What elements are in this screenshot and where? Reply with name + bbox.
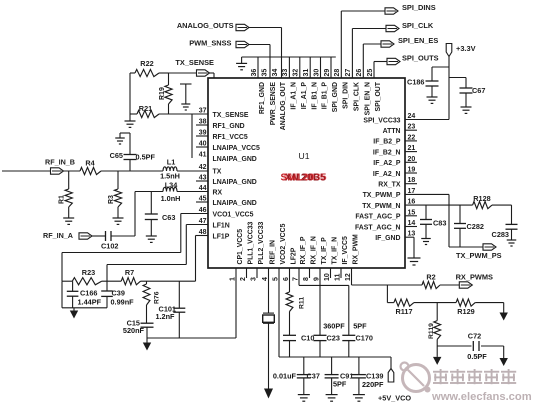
ground below left vertical: [125, 114, 136, 127]
ground below C83: [421, 239, 431, 245]
value 0.01uF of C37: [273, 372, 297, 381]
ground below C283: [507, 240, 517, 246]
pin number 42: [199, 164, 207, 171]
wire C170 to bus: [348, 341, 350, 357]
svg-text:32: 32: [293, 69, 300, 77]
connector RF_IN_A: [79, 233, 92, 239]
pin 25 label SPI_OUT: [375, 81, 382, 111]
pin number 16: [408, 199, 416, 206]
svg-text:0.01uF: 0.01uF: [273, 372, 297, 381]
pin 17 label TX_PWM_P: [363, 192, 401, 199]
net label RX_PWMS: [456, 273, 493, 282]
svg-text:R2: R2: [426, 272, 435, 281]
pin 40 LNAIPA_VCC5 stub: [196, 146, 208, 148]
net label PWM_SNSS: [189, 39, 231, 48]
pin 18 label RX_TX: [378, 182, 401, 189]
capacitor C170: [342, 335, 355, 340]
svg-text:42: 42: [199, 164, 207, 171]
wire junction vertical pin37 to pin41: [191, 114, 193, 158]
pin 43 LNAIPA_GND stub: [196, 180, 208, 182]
pin number 36: [251, 69, 258, 77]
pin number 24: [408, 113, 416, 120]
svg-text:30: 30: [313, 69, 320, 77]
wire branch to C67: [449, 78, 466, 89]
svg-text:SPI_VCC33: SPI_VCC33: [363, 117, 400, 124]
wire pin 48 net: [141, 236, 209, 282]
pin 20 label IF_A2_P: [373, 160, 401, 167]
capacitor C23: [314, 335, 327, 340]
svg-text:TX_PWM_PS: TX_PWM_PS: [456, 251, 502, 260]
pin 13 label IF_GND: [375, 235, 400, 242]
svg-text:R117: R117: [395, 307, 412, 316]
svg-text:TX_PWM_N: TX_PWM_N: [362, 203, 400, 210]
wire pin 7 IF bus: [299, 268, 349, 285]
wire ground bus above IC: [242, 56, 336, 58]
pin number 44: [199, 185, 207, 192]
svg-text:TX_SENSE: TX_SENSE: [175, 58, 214, 67]
label C39: [112, 288, 125, 297]
label R19: [159, 87, 166, 100]
pin 44 label RX: [213, 189, 223, 196]
svg-text:5PF: 5PF: [353, 321, 367, 330]
svg-text:8: 8: [303, 277, 310, 281]
value 1.5nH of L1: [160, 172, 180, 181]
svg-text:43: 43: [199, 175, 207, 182]
svg-text:RF_IN_B: RF_IN_B: [45, 158, 75, 167]
svg-text:15: 15: [408, 209, 416, 216]
pin number 20: [408, 156, 416, 163]
pin number 26: [356, 69, 363, 77]
label R117: [395, 307, 412, 316]
label C102: [101, 242, 118, 251]
label R76: [154, 291, 161, 304]
svg-text:36: 36: [251, 69, 258, 77]
label C67: [472, 86, 485, 95]
ground arrow below C15: [143, 338, 151, 351]
svg-text:+5V_VCO: +5V_VCO: [378, 394, 411, 403]
pin 19 label IF_A2_N: [373, 171, 401, 178]
svg-text:IF_A2_N: IF_A2_N: [373, 171, 401, 178]
svg-text:SPI_GND: SPI_GND: [332, 82, 339, 112]
label R22: [140, 59, 153, 68]
svg-text:39: 39: [199, 130, 207, 137]
pin 47 label LF1N: [213, 222, 230, 229]
svg-text:IF_VCC5: IF_VCC5: [342, 236, 349, 265]
svg-text:LF2P: LF2P: [291, 247, 298, 264]
capacitor C282: [454, 205, 466, 247]
wire drop to C170: [348, 285, 350, 335]
svg-text:VCO1_VCC5: VCO1_VCC5: [213, 211, 254, 218]
svg-text:RX_TX: RX_TX: [378, 182, 401, 189]
pin 43 label LNAIPA_GND: [213, 179, 257, 186]
wire RF_IN_A to C102: [92, 235, 106, 237]
svg-text:R23: R23: [82, 268, 95, 277]
pin 24 label SPI_VCC33: [363, 117, 400, 124]
pin number 40: [199, 141, 207, 148]
wire pin 17 to TX_PWM_PS: [405, 194, 483, 247]
wire pin 1 net: [235, 268, 237, 338]
pin 33 IF_A1_N stub: [288, 57, 290, 78]
pin 19 IF_A2_N stub: [405, 172, 417, 174]
net label TX_PWM_PS: [456, 251, 502, 260]
pin number 45: [199, 196, 207, 203]
svg-text:LNAIPA_VCC5: LNAIPA_VCC5: [213, 145, 261, 152]
connector RF_IN_B: [51, 168, 64, 174]
svg-text:RF_IN_A: RF_IN_A: [43, 231, 73, 240]
wire SPI_DINS to pin 28: [341, 11, 385, 78]
label R119: [428, 323, 435, 339]
svg-text:FAST_AGC_P: FAST_AGC_P: [355, 214, 401, 221]
svg-text:22: 22: [408, 134, 416, 141]
ground below R3: [113, 218, 124, 224]
pin number 15: [408, 209, 416, 216]
pin 15 FAST_AGC_P stub: [405, 215, 417, 217]
svg-text:SPI_OUT: SPI_OUT: [375, 81, 382, 111]
power +3.3V tag: [446, 44, 452, 57]
pin 8 label RX_IF_N: [311, 236, 318, 264]
pin 29 SPI_GND stub: [330, 57, 332, 78]
pin number 10: [324, 273, 331, 281]
wire C15 row to pin 1: [147, 337, 236, 339]
svg-text:IF_B1_P: IF_B1_P: [322, 82, 329, 110]
svg-text:L34: L34: [165, 181, 179, 190]
pin 23 ATTN stub: [405, 129, 417, 131]
connector TX_PWM_PS: [483, 244, 496, 250]
crystal Y1 on REF_IN: [263, 313, 275, 323]
svg-text:C65: C65: [110, 151, 123, 160]
pin number 48: [199, 229, 207, 236]
pin number 4: [262, 277, 269, 281]
wire pin 47 net: [107, 225, 208, 292]
label C15: [127, 318, 140, 327]
svg-text:C186: C186: [407, 78, 424, 87]
wire loop filter top row: [62, 280, 121, 282]
label L34: [165, 181, 179, 190]
pin 5 label VCO2_VCC5: [280, 223, 287, 264]
pin 20 IF_A2_P stub: [405, 161, 417, 163]
svg-text:www.elecfans.com: www.elecfans.com: [431, 391, 532, 403]
svg-text:0.99nF: 0.99nF: [111, 298, 135, 307]
ground below C139: [353, 395, 365, 402]
pin 31 IF_B1_N stub: [309, 57, 311, 78]
pin 45 label LNAIPA_GND: [213, 200, 257, 207]
svg-text:23: 23: [408, 124, 416, 131]
svg-text:R76: R76: [154, 291, 161, 304]
pin number 32: [293, 69, 300, 77]
pin number 29: [324, 69, 331, 77]
svg-text:C63: C63: [162, 213, 175, 222]
pin number 38: [199, 119, 207, 126]
U1 reference designator label: [299, 151, 310, 161]
net label TX_SENSE: [175, 58, 214, 67]
svg-text:PLL1_VCC33: PLL1_VCC33: [248, 221, 255, 264]
svg-text:R129: R129: [457, 307, 474, 316]
svg-text:45: 45: [199, 196, 207, 203]
wire R128 to C283: [492, 205, 512, 224]
svg-text:REF_IN: REF_IN: [270, 240, 277, 265]
resistor R11: [286, 292, 293, 312]
pin 16 label TX_PWM_N: [362, 203, 400, 210]
pin 11 IF_VCC5 stub: [340, 268, 342, 278]
wire R117 row: [387, 285, 503, 303]
wire pin 4 REF_IN net: [268, 268, 270, 391]
capacitor C101: [173, 281, 185, 338]
pin 14 label FAST_AGC_N: [355, 224, 401, 231]
svg-text:C170: C170: [356, 334, 373, 343]
svg-text:3: 3: [251, 277, 258, 281]
pin number 3: [251, 277, 258, 281]
capacitor C166: [67, 281, 79, 308]
capacitor C186: [426, 81, 439, 86]
svg-text:SPI_CLK: SPI_CLK: [402, 21, 434, 30]
pin 3 label PLL2_VCC33: [258, 221, 265, 264]
pin 35 label PWR_SENSE: [270, 82, 277, 126]
pin number 33: [282, 69, 289, 77]
wire C10 to bus: [289, 341, 291, 357]
pin 39 RF1_VCC5 stub: [196, 135, 208, 137]
pin number 43: [199, 175, 207, 182]
pin number 35: [262, 69, 269, 77]
pin 23 label ATTN: [383, 128, 401, 135]
net label SPI_DINS: [402, 3, 436, 12]
pin number 31: [303, 69, 310, 77]
svg-text:38: 38: [199, 119, 207, 126]
pin number 27: [345, 69, 352, 77]
svg-text:C83: C83: [433, 219, 446, 228]
capacitor C65: [124, 133, 137, 171]
pin 42 label TX: [213, 168, 222, 175]
ground top bus: [236, 57, 247, 70]
net label SPI_EN_ES: [398, 36, 438, 45]
ground below C67: [461, 93, 472, 113]
svg-text:ATTN: ATTN: [383, 128, 401, 135]
connector RX_PWMS: [459, 282, 472, 288]
svg-text:40: 40: [199, 141, 207, 148]
pin 30 IF_B1_P stub: [320, 57, 322, 78]
wire RF_IN_B row: [2, 170, 208, 172]
pin 40 label LNAIPA_VCC5: [213, 145, 261, 152]
wire pin 13 to ground: [405, 237, 414, 258]
wire SPI_CLK to pin 27: [352, 29, 386, 79]
svg-text:RX_IF_P: RX_IF_P: [300, 236, 307, 264]
svg-text:21: 21: [408, 145, 416, 152]
svg-text:CP1_VCC5: CP1_VCC5: [237, 229, 244, 265]
label C166: [80, 288, 97, 297]
svg-text:ANALOG_OUT: ANALOG_OUT: [280, 81, 287, 130]
svg-text:C282: C282: [467, 222, 484, 231]
resistor R3: [114, 171, 121, 218]
wire C23 to bus: [319, 341, 321, 357]
label C139: [366, 372, 383, 381]
pin number 21: [408, 145, 416, 152]
svg-text:29: 29: [324, 69, 331, 77]
pin number 8: [303, 277, 310, 281]
net label RF_IN_A: [43, 231, 73, 240]
pin number 11: [335, 273, 342, 281]
svg-text:RF1_VCC5: RF1_VCC5: [213, 134, 248, 141]
svg-text:+3.3V: +3.3V: [456, 44, 476, 53]
label R3: [108, 195, 115, 204]
connector TX_SENSE: [197, 70, 215, 78]
pin 10 label TX_IF_N: [332, 237, 339, 265]
connector SPI_EN_ES: [381, 41, 394, 47]
pin 8 RX_IF_N stub: [309, 268, 311, 278]
resistor R4: [80, 167, 101, 174]
svg-text:IF_B2_N: IF_B2_N: [373, 149, 401, 156]
svg-text:C10: C10: [301, 334, 314, 343]
label R128: [473, 194, 490, 203]
pin 22 label IF_B2_P: [373, 139, 401, 146]
capacitor C10: [283, 335, 296, 340]
wire branch to C186: [432, 67, 449, 81]
value 0.5PF of C65: [136, 153, 156, 162]
inductor L1: [163, 167, 177, 171]
svg-text:41: 41: [199, 152, 207, 159]
arrow termination after C72: [500, 346, 508, 366]
ground below C186: [427, 86, 438, 103]
svg-text:IF_A2_P: IF_A2_P: [373, 160, 401, 167]
wire pin 12 net: [352, 268, 460, 285]
label L1: [167, 158, 176, 167]
label R23: [82, 268, 95, 277]
svg-text:SPI_CLK: SPI_CLK: [354, 82, 361, 111]
pin 12 label RX_PWM: [353, 234, 360, 265]
pin 32 IF_A1_P stub: [299, 57, 301, 78]
pin 32 label IF_A1_P: [301, 82, 308, 110]
pin 21 IF_B2_N stub: [405, 151, 417, 153]
pin number 7: [293, 277, 300, 281]
arrow termination below junction R119: [433, 346, 441, 365]
label C186: [407, 78, 424, 87]
svg-text:IF_B1_N: IF_B1_N: [311, 82, 318, 110]
svg-text:PLL2_VCC33: PLL2_VCC33: [258, 221, 265, 264]
power +5V_VCO tag: [388, 357, 394, 382]
svg-text:TX_SENSE: TX_SENSE: [213, 112, 249, 119]
svg-text:RX_PWM: RX_PWM: [353, 234, 360, 265]
value 520nF of C15: [123, 326, 145, 335]
label R11: [299, 297, 306, 309]
pin number 13: [408, 231, 416, 238]
resistor R117: [394, 299, 414, 306]
wire R22 row: [130, 72, 197, 74]
svg-text:1.2nF: 1.2nF: [155, 312, 175, 321]
pin 45 LNAIPA_GND stub: [196, 201, 208, 203]
pin number 22: [408, 134, 416, 141]
connector SPI_CLK: [386, 25, 399, 31]
svg-text:360PF: 360PF: [323, 321, 345, 330]
svg-text:TX: TX: [213, 168, 222, 175]
label C63: [162, 213, 175, 222]
pin number 18: [408, 177, 416, 184]
pin 9 label TX_IF_P: [321, 237, 328, 265]
label C10: [301, 334, 314, 343]
svg-text:R3: R3: [108, 195, 115, 204]
capacitor C15: [141, 323, 154, 338]
watermark elecfans logo and text: [401, 363, 532, 404]
svg-text:RF1_GND: RF1_GND: [259, 82, 266, 114]
resistor R119: [434, 303, 441, 346]
ground below R1: [63, 218, 74, 224]
svg-text:FAST_AGC_N: FAST_AGC_N: [355, 224, 401, 231]
ground arrow loop filter: [70, 308, 78, 319]
label C170: [356, 334, 373, 343]
capacitor C67: [460, 88, 473, 93]
svg-text:34: 34: [272, 69, 279, 77]
arrow termination after R129: [500, 303, 508, 321]
label +3.3V: [456, 44, 476, 53]
svg-text:1.5nH: 1.5nH: [160, 172, 180, 181]
pin 11 label IF_VCC5: [342, 236, 349, 265]
pin 26 label SPI_EN_N: [365, 82, 372, 115]
svg-text:R1: R1: [59, 195, 66, 204]
svg-text:TX_IF_P: TX_IF_P: [321, 237, 328, 265]
wire R11 to C10: [289, 312, 291, 336]
svg-text:LNAIPA_GND: LNAIPA_GND: [213, 156, 257, 163]
svg-text:10: 10: [324, 273, 331, 281]
pin number 12: [345, 273, 352, 281]
svg-text:RF1_GND: RF1_GND: [213, 123, 245, 130]
label C101: [159, 305, 176, 314]
pin number 47: [199, 218, 207, 225]
pin 48 label LF1P: [213, 233, 230, 240]
connector PWM_SNSS: [236, 41, 249, 47]
net label RF_IN_B: [45, 158, 75, 167]
svg-text:SPI_OUTS: SPI_OUTS: [402, 54, 439, 63]
ground below C63: [146, 236, 157, 242]
svg-text:19: 19: [408, 167, 416, 174]
svg-text:R11: R11: [299, 297, 306, 309]
ground below C91: [326, 395, 338, 402]
label C282: [467, 222, 484, 231]
wire SPI_OUTS to pin 25: [374, 62, 387, 79]
pin 2 PLL1_VCC33 stub: [246, 268, 248, 278]
svg-text:1.44PF: 1.44PF: [78, 298, 102, 307]
wire pin 6 to R11: [289, 268, 291, 292]
label C283: [492, 230, 509, 239]
resistor R129: [456, 299, 475, 306]
pin 14 FAST_AGC_N stub: [405, 226, 417, 228]
label C65: [110, 151, 123, 160]
pin number 34: [272, 69, 279, 77]
pin 38 RF1_GND stub: [196, 124, 208, 126]
pin number 19: [408, 167, 416, 174]
label R129: [457, 307, 474, 316]
svg-text:33: 33: [282, 69, 289, 77]
pin number 46: [199, 207, 207, 214]
pin 10 TX_IF_N stub: [330, 268, 332, 278]
label C23: [327, 334, 340, 343]
capacitor C91: [325, 357, 339, 394]
svg-text:C102: C102: [101, 242, 118, 251]
pin number 23: [408, 124, 416, 131]
svg-text:RX_PWMS: RX_PWMS: [456, 273, 493, 282]
wire pin 16 row: [405, 204, 473, 206]
wire left vertical R22-R21: [129, 73, 131, 114]
arrow termination REF_IN: [264, 389, 273, 399]
pin 21 label IF_B2_N: [373, 149, 401, 156]
value 220PF of C139: [362, 380, 384, 389]
pin 4 label REF_IN: [270, 240, 277, 265]
svg-text:SPI_DINS: SPI_DINS: [402, 3, 436, 12]
pin 18 RX_TX stub: [405, 183, 417, 185]
value 0.99nF of C39: [111, 298, 135, 307]
svg-text:L1: L1: [167, 158, 176, 167]
resistor R19: [165, 73, 172, 114]
svg-text:26: 26: [356, 69, 363, 77]
inductor L34: [163, 187, 177, 191]
pin 27 label SPI_CLK: [354, 82, 361, 111]
pin number 39: [199, 130, 207, 137]
